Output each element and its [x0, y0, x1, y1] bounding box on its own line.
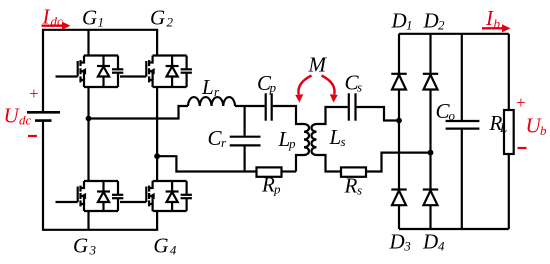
capacitor Cr: [230, 106, 261, 172]
svg-text:4: 4: [170, 243, 177, 258]
node: rectifier right-leg midpoint: [428, 150, 434, 156]
wire: Rp to Lp bottom: [282, 170, 297, 172]
capacitor Co branch: [446, 34, 480, 229]
capacitor Cp: [266, 93, 272, 120]
label Ub: [526, 114, 548, 139]
svg-text:L: L: [201, 75, 214, 99]
inductor Lr: [188, 97, 235, 106]
svg-text:1: 1: [98, 14, 105, 29]
label Lr: [201, 75, 220, 99]
parallel capacitor of G1: [112, 56, 123, 88]
wire: Ls bottom lead: [317, 155, 342, 172]
svg-text:+: +: [515, 93, 526, 112]
svg-text:dc: dc: [51, 13, 64, 28]
node: leg1 midpoint junction: [86, 116, 92, 122]
svg-text:b: b: [494, 16, 501, 31]
label RL: [489, 111, 508, 135]
svg-text:b: b: [540, 123, 547, 138]
wire: rectifier left leg: [398, 34, 400, 229]
MOSFET G1: [56, 56, 119, 88]
svg-text:G: G: [73, 234, 88, 258]
label - (load): [518, 147, 527, 149]
wire: leg2 node B to Rp (primary bottom, with step): [157, 156, 256, 171]
svg-text:p: p: [269, 80, 277, 95]
svg-text:R: R: [344, 174, 358, 198]
body diode of G1: [97, 56, 110, 88]
svg-text:s: s: [357, 183, 362, 198]
wire: leg1 bottom segment: [87, 211, 89, 230]
diode D2: [423, 74, 438, 90]
current arrow Ib: [482, 24, 511, 32]
svg-text:L: L: [329, 125, 342, 149]
resistor Rp: [257, 167, 282, 176]
wire: Lr to Cp: [235, 105, 265, 107]
label Ib: [485, 6, 501, 31]
svg-text:I: I: [42, 5, 51, 29]
MOSFET G4: [120, 181, 187, 211]
label Cr: [208, 126, 228, 150]
svg-text:R: R: [261, 173, 275, 197]
svg-text:D: D: [389, 230, 405, 254]
body diode of G2: [166, 56, 179, 88]
svg-text:s: s: [341, 134, 346, 149]
wire: rectifier top rail: [399, 33, 509, 35]
wire: leg1 middle segment: [87, 87, 89, 181]
label Ls: [329, 125, 346, 149]
node: leg2 midpoint junction: [154, 153, 160, 159]
resistor Rs: [341, 167, 366, 176]
label Udc: [4, 104, 32, 128]
svg-text:4: 4: [438, 239, 445, 254]
label Idc: [42, 5, 64, 29]
wire: leg2 middle segment: [156, 87, 158, 181]
mutual coupling arrow right: [322, 76, 338, 103]
label Co: [436, 99, 456, 123]
svg-text:p: p: [288, 136, 296, 151]
resistor RL branch: [504, 34, 514, 229]
MOSFET G3: [56, 181, 119, 211]
diode D1: [391, 74, 406, 90]
label - (source): [28, 135, 37, 137]
svg-text:M: M: [308, 52, 328, 76]
node: rectifier left-leg midpoint: [396, 118, 402, 124]
svg-text:2: 2: [438, 18, 445, 33]
wire: Cp to Lp top: [273, 106, 304, 124]
label M: [308, 52, 328, 76]
inductor Ls (secondary coil): [311, 124, 316, 155]
label D3: [389, 230, 412, 254]
wire: battery negative lead + inverter bottom rail: [43, 121, 158, 230]
label G2: [150, 5, 174, 29]
svg-text:3: 3: [89, 243, 97, 258]
capacitor Cs: [349, 93, 356, 120]
label G4: [153, 234, 177, 258]
wire: inverter output A to Lr (with step): [89, 106, 189, 119]
wire: Ls top lead: [317, 107, 348, 124]
svg-text:L: L: [499, 120, 507, 135]
svg-text:s: s: [357, 80, 362, 95]
label G3: [73, 234, 97, 258]
label D2: [423, 9, 446, 33]
MOSFET G2: [120, 56, 187, 88]
wire: Lp bottom lead: [296, 155, 304, 172]
label Rs: [344, 174, 363, 198]
parallel capacitor of G4: [181, 181, 192, 211]
parallel capacitor of G2: [181, 56, 192, 88]
parallel capacitor of G3: [112, 181, 123, 211]
label + (source): [28, 84, 39, 103]
svg-text:D: D: [391, 9, 407, 33]
label Lp: [278, 127, 297, 151]
svg-text:1: 1: [406, 18, 413, 33]
svg-text:p: p: [273, 182, 281, 197]
wire: leg2 bottom segment: [156, 211, 158, 230]
label G1: [82, 5, 104, 29]
mutual coupling arrow left: [295, 76, 311, 103]
label Rp: [261, 173, 281, 197]
wire: Cs to rectifier node C (with step): [357, 107, 399, 121]
label Cs: [345, 71, 363, 95]
svg-text:G: G: [153, 234, 168, 258]
wire: rectifier right leg: [429, 34, 431, 229]
wire: Rs to rectifier node D (with step): [366, 153, 431, 172]
diode D4: [423, 190, 438, 206]
wire: leg2 drain segment: [156, 30, 158, 56]
wire: rectifier bottom rail: [399, 228, 509, 230]
svg-text:D: D: [422, 230, 438, 254]
body diode of G3: [97, 181, 110, 211]
diode D3: [391, 190, 406, 206]
label + (load): [515, 93, 526, 112]
svg-text:U: U: [4, 104, 21, 128]
svg-text:G: G: [82, 5, 97, 29]
svg-text:dc: dc: [19, 113, 32, 128]
label D1: [391, 9, 413, 33]
svg-text:G: G: [150, 5, 165, 29]
wire: leg1 drain segment: [87, 30, 89, 56]
battery Udc plates: [27, 112, 60, 120]
svg-text:+: +: [28, 84, 39, 103]
svg-text:2: 2: [167, 14, 174, 29]
current arrow Idc: [42, 22, 71, 30]
label Cp: [257, 71, 277, 95]
svg-text:o: o: [449, 108, 456, 123]
wire: inverter top rail with battery positive lead: [43, 30, 158, 112]
label D4: [422, 230, 445, 254]
inductor Lp (primary coil): [304, 124, 309, 155]
body diode of G4: [166, 181, 179, 211]
svg-text:D: D: [423, 9, 439, 33]
svg-text:3: 3: [403, 239, 411, 254]
